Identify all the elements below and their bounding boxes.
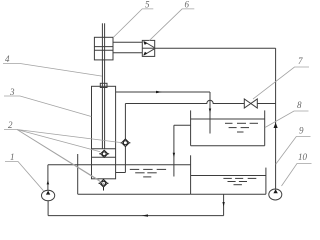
right riser wire [275,48,277,189]
check valve 2b (bottom suction) [99,179,109,191]
leader 7 [253,67,309,99]
leader 3 [4,96,91,117]
valve 7 (gate valve bowtie) [244,99,257,108]
cylinder gland [100,83,107,87]
leader 9 [276,137,311,165]
leader 8 [265,111,309,128]
svg-text:7: 7 [298,56,303,66]
lower right tank [191,168,266,195]
leader 10 [282,164,312,187]
pump 10 (circle with up arrow) [269,189,282,200]
svg-text:3: 3 [9,87,15,97]
svg-text:8: 8 [297,100,302,110]
pump 1 (circle with up arrow) [42,165,55,201]
valve line wire (with crossover hump) [125,100,275,103]
shaft link wires between block 5 and motor 6 [113,42,142,53]
top discharge wire to upper tank [116,91,212,134]
overflow pipe from upper tank into middle tank [173,125,191,176]
upper tank 8 [191,110,265,145]
leader 4 [3,64,102,77]
up arrow on right riser [274,123,278,129]
wire from motor 6 to right riser [155,47,276,49]
lower tank liquid dashes [223,178,256,184]
upper tank liquid dashes [225,123,258,132]
pump 1 suction wire along bottom [48,194,225,217]
svg-text:5: 5 [145,0,150,9]
svg-text:4: 4 [5,54,10,64]
riser wire with check valve [124,104,126,173]
leader 1 [5,162,44,191]
leader 5 [113,9,153,38]
discharge stub from cylinder bottom chamber [116,172,126,174]
check valve 2a (in piston) [99,150,109,157]
drive cylinder 5 (upper block) [94,37,113,60]
piston rod 4 (double line) [102,23,104,149]
svg-text:1: 1 [10,152,15,162]
middle tank liquid dashes [130,169,166,177]
svg-text:10: 10 [298,152,308,162]
cylinder 3 (main body) [92,86,116,179]
motor U6 (square with two diagonal arrows) [142,40,154,56]
leader lines [3,9,312,191]
check valve 2c (on riser) [120,139,130,147]
leader 2 (fan of four) [4,130,121,185]
leader 6 [149,9,194,41]
svg-text:2: 2 [8,120,13,130]
piston (two lines) [92,149,116,158]
middle tank [48,154,191,194]
callout digits [5,0,308,162]
svg-text:6: 6 [185,0,190,9]
svg-text:9: 9 [299,126,304,136]
